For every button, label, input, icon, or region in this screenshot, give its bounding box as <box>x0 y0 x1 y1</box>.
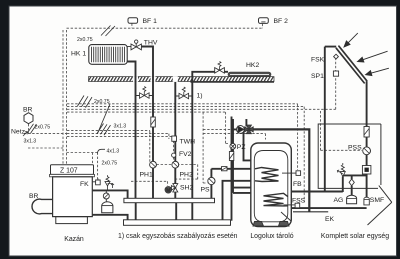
svg-text:FV2: FV2 <box>179 151 192 158</box>
svg-text:2x0.75: 2x0.75 <box>35 125 51 131</box>
svg-text:FK: FK <box>80 181 89 188</box>
svg-text:2x0.75: 2x0.75 <box>77 37 93 43</box>
svg-text:Kazán: Kazán <box>64 236 84 243</box>
svg-text:FB: FB <box>293 181 302 188</box>
svg-text:PSS: PSS <box>348 145 362 152</box>
svg-text:HK2: HK2 <box>246 62 259 69</box>
svg-text:BF 2: BF 2 <box>274 18 289 25</box>
svg-text:SMF: SMF <box>370 197 384 204</box>
svg-text:AG: AG <box>334 197 344 204</box>
svg-text:PH1: PH1 <box>140 172 153 179</box>
svg-text:BF 1: BF 1 <box>143 18 158 25</box>
svg-text:Netz: Netz <box>11 129 26 136</box>
svg-text:Komplett solar egység: Komplett solar egység <box>321 233 389 240</box>
svg-text:3x1.3: 3x1.3 <box>114 124 127 130</box>
svg-text:SP1: SP1 <box>311 73 324 80</box>
svg-text:THV: THV <box>144 40 158 47</box>
svg-text:PS: PS <box>201 187 211 194</box>
svg-text:2x0.75: 2x0.75 <box>102 161 118 167</box>
svg-text:HK 1: HK 1 <box>71 51 86 58</box>
svg-text:SH2: SH2 <box>180 185 193 192</box>
svg-text:FSK: FSK <box>311 57 325 64</box>
svg-text:M: M <box>166 188 170 193</box>
svg-text:Z 107: Z 107 <box>60 167 78 174</box>
svg-text:PH2: PH2 <box>180 172 193 179</box>
svg-text:4x1.3: 4x1.3 <box>107 149 120 155</box>
svg-text:BR: BR <box>23 107 33 114</box>
svg-text:3x1.3: 3x1.3 <box>24 139 37 145</box>
svg-text:1): 1) <box>197 93 203 100</box>
svg-text:1) csak egyszobás szabályozás: 1) csak egyszobás szabályozás esetén <box>118 233 238 240</box>
svg-text:PZ: PZ <box>237 144 246 151</box>
svg-text:Logolux tároló: Logolux tároló <box>250 233 293 240</box>
svg-text:FSS: FSS <box>292 198 306 205</box>
svg-text:TWH: TWH <box>180 139 196 146</box>
svg-text:EK: EK <box>325 216 335 223</box>
svg-text:BR: BR <box>29 193 39 200</box>
svg-text:2x0.75: 2x0.75 <box>94 99 110 105</box>
